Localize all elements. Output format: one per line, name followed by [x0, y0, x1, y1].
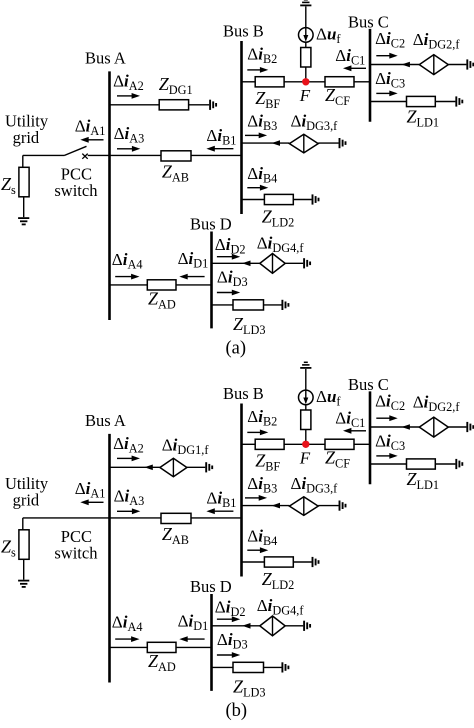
- svg-text:ZAB: ZAB: [162, 524, 189, 547]
- current label di_D1 (b): [178, 612, 209, 634]
- current label di_A2 (b): [113, 434, 144, 456]
- svg-text:ZLD2: ZLD2: [262, 569, 295, 592]
- wire Z_BF to Z_CF (a): [284, 81, 325, 83]
- label du_f (b): [316, 387, 341, 409]
- PCC switch blade open (a): [65, 146, 87, 155]
- current label di_B3 (a): [247, 112, 277, 134]
- svg-text:Zs: Zs: [1, 174, 16, 197]
- impedance Z_BF (b): [255, 439, 284, 449]
- arrow di_A2 (b): [117, 456, 140, 462]
- wire bus B to Z_LD2 (b): [242, 561, 265, 563]
- DG source DG3 (b): [289, 497, 318, 516]
- arrow di_D2 (a): [217, 254, 240, 260]
- current label di_B4 (a): [247, 164, 277, 186]
- impedance Z_AD (a): [147, 280, 176, 290]
- wire Z_s to ground (a): [23, 197, 25, 217]
- current label di_DG3,f (a): [291, 112, 339, 134]
- svg-text:ΔiB2: ΔiB2: [247, 45, 277, 66]
- bus B (a): [240, 41, 243, 214]
- svg-text:ZLD3: ZLD3: [233, 314, 266, 337]
- wire bus A to Z_AB (a): [110, 154, 162, 156]
- DG source DG2 (a): [419, 55, 448, 75]
- svg-text:ΔiB4: ΔiB4: [247, 527, 277, 549]
- arrow di_A1 (a): [80, 137, 103, 143]
- svg-text:switch: switch: [54, 181, 98, 200]
- svg-text:ZAD: ZAD: [148, 288, 176, 311]
- current label di_B4 (b): [247, 527, 277, 549]
- arrow di_A4 (b): [115, 636, 139, 642]
- svg-text:F: F: [299, 448, 311, 467]
- arrow di_D1 (b): [179, 636, 204, 642]
- wire bus C to DG2 (a): [370, 64, 419, 66]
- utility grid label (a): [5, 112, 49, 147]
- arrow di_A3 (b): [117, 508, 140, 514]
- arrow di_D1 (a): [179, 274, 204, 280]
- utility grid label (b): [5, 474, 49, 509]
- impedance Z_s (a): [19, 167, 29, 197]
- svg-text:ΔiA4: ΔiA4: [112, 613, 143, 635]
- current label di_DG1,f (b): [162, 436, 210, 458]
- svg-text:grid: grid: [13, 490, 40, 509]
- current label di_DG4,f (a): [257, 234, 305, 256]
- svg-text:ΔiA2: ΔiA2: [113, 72, 144, 94]
- ground Z_LD1 (a): [456, 96, 462, 106]
- arrowhead into bus B from DG3 (a): [272, 140, 281, 146]
- svg-text:ΔiDG2,f: ΔiDG2,f: [413, 393, 461, 415]
- svg-text:ΔiDG3,f: ΔiDG3,f: [291, 474, 339, 496]
- wire bus B to DG3 (a): [242, 142, 290, 144]
- arrowhead into bus D from DG4 (a): [242, 261, 251, 267]
- svg-text:ΔiC1: ΔiC1: [335, 46, 365, 68]
- current label di_C1 (a): [335, 46, 365, 68]
- current label di_D2 (a): [215, 235, 246, 257]
- svg-text:ZDG1: ZDG1: [159, 74, 193, 97]
- ground utility (b): [18, 581, 29, 587]
- wire Z_LD3 to ground (a): [264, 304, 282, 306]
- svg-text:ΔiC2: ΔiC2: [375, 391, 405, 413]
- bus A (b): [108, 434, 111, 683]
- arrow di_C1 (a): [343, 65, 366, 71]
- label Z_AB (b): [162, 524, 189, 547]
- svg-text:ΔiA1: ΔiA1: [75, 479, 106, 501]
- DG source DG4 (a): [260, 254, 285, 274]
- caption (a): [226, 339, 247, 359]
- impedance Z_AB (a): [161, 151, 191, 161]
- arrow di_B1 (b): [206, 508, 233, 514]
- current label di_D2 (b): [215, 597, 246, 619]
- arrow di_C3 (b): [376, 453, 397, 459]
- impedance Z_LD2 (a): [264, 194, 293, 204]
- ground Z_DG1 (a): [210, 100, 216, 110]
- current label di_B2 (a): [247, 45, 277, 66]
- wire bus A to Z_DG1 (a): [110, 104, 160, 106]
- impedance Z_LD3 (b): [233, 662, 264, 672]
- svg-text:(b): (b): [226, 701, 248, 721]
- impedance Z_BF (a): [255, 77, 284, 87]
- svg-text:(a): (a): [226, 339, 247, 359]
- svg-text:Bus B: Bus B: [223, 384, 264, 403]
- wire DG4 to ground (b): [285, 625, 303, 627]
- wire utility drop (b): [22, 518, 24, 530]
- current label di_DG2,f (a): [413, 30, 461, 52]
- ground fault top (b): [300, 362, 311, 368]
- arrow di_A1 (b): [80, 499, 103, 505]
- ground Z_LD2 (b): [313, 557, 319, 567]
- svg-text:Bus D: Bus D: [190, 577, 232, 596]
- svg-text:ΔiDG4,f: ΔiDG4,f: [257, 596, 305, 618]
- bus C label (a): [348, 12, 389, 31]
- arrowhead into bus C from DG2 (a): [401, 62, 410, 68]
- current label di_A3 (a): [114, 124, 145, 146]
- svg-text:ZAD: ZAD: [148, 651, 176, 674]
- wire fault impedance to node F (b): [305, 430, 307, 445]
- wire bus A to Z_AB (b): [110, 517, 162, 519]
- svg-text:ΔiD2: ΔiD2: [215, 235, 246, 257]
- arrowhead into bus A from DG1 (b): [144, 465, 153, 471]
- svg-text:ZBF: ZBF: [255, 451, 280, 474]
- svg-text:ZLD1: ZLD1: [407, 107, 440, 130]
- svg-text:ΔiDG3,f: ΔiDG3,f: [291, 112, 339, 134]
- ground Z_LD1 (b): [456, 459, 462, 469]
- svg-text:ZLD3: ZLD3: [233, 676, 266, 699]
- svg-text:Bus D: Bus D: [190, 215, 232, 234]
- svg-text:ΔiC1: ΔiC1: [335, 408, 365, 430]
- current label di_A1 (b): [75, 479, 106, 501]
- DG source DG2 (b): [419, 417, 448, 437]
- current label di_DG2,f (b): [413, 393, 461, 415]
- label Z_AB (a): [162, 162, 189, 185]
- wire bus D to Z_LD3 (b): [212, 666, 234, 668]
- impedance Z_LD1 (b): [407, 459, 436, 469]
- impedance Z_CF (a): [325, 77, 354, 87]
- svg-text:ΔiA3: ΔiA3: [114, 124, 145, 146]
- DG source DG1 (b): [160, 458, 187, 476]
- svg-text:ΔiA1: ΔiA1: [75, 116, 106, 138]
- label F (a): [299, 86, 311, 105]
- wire Z_AD to bus D (a): [176, 284, 212, 286]
- svg-text:ΔiDG1,f: ΔiDG1,f: [162, 436, 210, 458]
- svg-text:ΔiD1: ΔiD1: [178, 612, 209, 634]
- wire DG2 to ground (a): [448, 64, 466, 66]
- impedance Z_DG1 (a): [159, 100, 188, 110]
- wire bus C to DG2 (b): [370, 426, 419, 428]
- current label di_C1 (b): [335, 408, 365, 430]
- label Z_s (b): [1, 536, 16, 559]
- wire bus C to Z_LD1 (a): [370, 101, 407, 103]
- PCC switch label (a): [54, 165, 98, 201]
- wire ground to source (b): [305, 369, 307, 390]
- PCC switch x contact (a): [82, 154, 87, 159]
- svg-text:ΔiA3: ΔiA3: [114, 487, 145, 509]
- impedance Z_AD (b): [147, 642, 176, 652]
- current label di_A4 (b): [112, 613, 143, 635]
- svg-text:ZLD1: ZLD1: [407, 469, 440, 492]
- svg-text:F: F: [299, 86, 311, 105]
- voltage source du_f circle (a): [299, 28, 314, 43]
- svg-text:switch: switch: [54, 544, 98, 563]
- wire bus A to DG1 (b): [110, 466, 160, 468]
- svg-text:Δuf: Δuf: [316, 387, 341, 409]
- wire Z_s to ground (b): [23, 559, 25, 579]
- current label di_B3 (b): [247, 474, 277, 496]
- svg-text:ΔiD1: ΔiD1: [178, 249, 209, 271]
- svg-text:ZLD2: ZLD2: [262, 206, 295, 229]
- ground fault top (a): [300, 0, 311, 5]
- ground DG4 (a): [304, 258, 310, 268]
- wire bus B to Z_BF (a): [242, 81, 256, 83]
- ground Z_LD3 (a): [282, 300, 288, 310]
- bus A (a): [108, 71, 111, 320]
- wire Z_LD2 to ground (a): [293, 199, 311, 201]
- label Z_LD2 (a): [262, 206, 295, 229]
- voltage source du_f circle (b): [299, 390, 314, 405]
- label Z_LD3 (b): [233, 676, 266, 699]
- svg-text:ZCF: ZCF: [325, 447, 350, 470]
- wire Z_BF to Z_CF (b): [284, 443, 325, 445]
- svg-text:ΔiA4: ΔiA4: [112, 250, 143, 272]
- wire bus B to Z_BF (b): [242, 443, 256, 445]
- bus B label (b): [223, 384, 264, 403]
- bus C (a): [369, 29, 372, 122]
- arrowhead into bus D from DG4 (b): [242, 623, 251, 629]
- wire bus C to Z_LD1 (b): [370, 463, 407, 465]
- svg-text:ΔiDG2,f: ΔiDG2,f: [413, 30, 461, 52]
- arrow di_B4 (a): [247, 185, 268, 191]
- label Z_s (a): [1, 174, 16, 197]
- ground DG3 (b): [340, 501, 346, 511]
- ground utility (a): [18, 218, 29, 224]
- arrow di_A4 (a): [115, 274, 139, 280]
- wire Z_LD1 to ground (b): [435, 463, 455, 465]
- bus D (b): [210, 594, 213, 691]
- ground DG2 (a): [467, 59, 473, 69]
- current label di_C3 (b): [375, 431, 405, 453]
- impedance Z_s (b): [19, 530, 29, 560]
- impedance Z_LD1 (a): [407, 96, 436, 106]
- arrow di_A3 (a): [117, 146, 140, 152]
- caption (b): [226, 701, 248, 721]
- wire bus D to Z_LD3 (a): [212, 304, 234, 306]
- svg-text:ΔiDG4,f: ΔiDG4,f: [257, 234, 305, 256]
- bus D label (a): [190, 215, 232, 234]
- ground Z_LD2 (a): [313, 194, 319, 204]
- label du_f (a): [316, 25, 341, 47]
- label Z_CF (a): [325, 85, 350, 108]
- wire bus D to DG4 (b): [212, 625, 260, 627]
- label Z_LD1 (b): [407, 469, 440, 492]
- node F (b): [302, 441, 309, 448]
- label Z_LD2 (b): [262, 569, 295, 592]
- wire DG1 to ground (b): [187, 466, 205, 468]
- svg-text:ΔiB3: ΔiB3: [247, 112, 277, 134]
- svg-text:ΔiB4: ΔiB4: [247, 164, 277, 186]
- svg-text:ΔiB3: ΔiB3: [247, 474, 277, 496]
- arrow di_D2 (b): [217, 616, 240, 622]
- wire utility to bus A, PCC closed (b): [23, 517, 110, 519]
- label Z_DG1 (a): [159, 74, 193, 97]
- svg-text:ΔiC2: ΔiC2: [375, 29, 405, 51]
- label Z_LD3 (a): [233, 314, 266, 337]
- wire DG3 to ground (b): [318, 505, 338, 507]
- svg-text:Δuf: Δuf: [316, 25, 341, 47]
- wire ground to source (a): [305, 6, 307, 27]
- bus B label (a): [223, 22, 264, 41]
- current label di_D3 (b): [217, 630, 248, 652]
- arrow di_D3 (a): [217, 290, 240, 296]
- arrow di_C3 (a): [376, 91, 397, 97]
- arrow di_B4 (b): [247, 547, 268, 553]
- bus C label (b): [348, 375, 389, 394]
- wire Z_LD3 to ground (b): [264, 666, 282, 668]
- impedance Z_AB (b): [161, 513, 191, 523]
- wire Z_DG1 to ground (a): [189, 104, 210, 106]
- bus D label (b): [190, 577, 232, 596]
- wire bus B to Z_LD2 (a): [242, 199, 265, 201]
- arrow di_B2 (a): [247, 67, 268, 73]
- PCC switch label (b): [54, 527, 98, 563]
- label Z_LD1 (a): [407, 107, 440, 130]
- wire bus D to DG4 (a): [212, 262, 260, 264]
- current label di_D1 (a): [178, 249, 209, 271]
- current label di_A3 (b): [114, 487, 145, 509]
- wire DG2 to ground (b): [448, 426, 466, 428]
- impedance Z_LD2 (b): [264, 557, 293, 567]
- wire PCC switch to bus A (a): [88, 154, 110, 156]
- current label di_A1 (a): [75, 116, 106, 138]
- wire Z_AD to bus D (b): [176, 646, 212, 648]
- current label di_A2 (a): [113, 72, 144, 94]
- ground DG2 (b): [467, 422, 473, 432]
- current label di_B2 (b): [247, 407, 277, 429]
- wire source to fault impedance (b): [305, 405, 307, 410]
- svg-text:ΔiC3: ΔiC3: [375, 69, 405, 91]
- svg-text:ZAB: ZAB: [162, 162, 189, 185]
- label Z_BF (a): [255, 88, 280, 111]
- label F (b): [299, 448, 311, 467]
- arrow di_C1 (b): [343, 428, 366, 434]
- bus D (a): [210, 232, 213, 329]
- wire DG4 to ground (a): [285, 262, 303, 264]
- label Z_AD (b): [148, 651, 176, 674]
- bus C (b): [369, 391, 372, 484]
- svg-text:Bus A: Bus A: [85, 411, 126, 430]
- label Z_CF (b): [325, 447, 350, 470]
- wire bus A to Z_AD (a): [110, 284, 148, 286]
- current label di_B1 (b): [206, 488, 236, 510]
- svg-text:ΔiD3: ΔiD3: [217, 268, 248, 290]
- arrow di_C2 (a): [376, 53, 397, 59]
- bus A label (b): [85, 411, 126, 430]
- wire Z_CF to bus C (a): [354, 81, 370, 83]
- arrow di_D3 (b): [217, 652, 240, 658]
- svg-text:ΔiC3: ΔiC3: [375, 431, 405, 453]
- current label di_A4 (a): [112, 250, 143, 272]
- arrow di_B1 (a): [206, 146, 233, 152]
- svg-text:ΔiA2: ΔiA2: [113, 434, 144, 456]
- label Z_BF (b): [255, 451, 280, 474]
- wire Z_AB to bus B (b): [191, 517, 242, 519]
- arrowhead into bus C from DG2 (b): [401, 424, 410, 430]
- wire Z_LD2 to ground (b): [293, 561, 311, 563]
- wire utility to PCC switch (a): [23, 154, 65, 156]
- wire fault impedance to node F (a): [305, 67, 307, 82]
- bus B (b): [240, 404, 243, 577]
- ground DG4 (b): [304, 621, 310, 631]
- current label di_D3 (a): [217, 268, 248, 290]
- node F (a): [302, 78, 309, 85]
- arrow di_A2 (a): [117, 93, 140, 99]
- DG source DG3 (a): [289, 134, 318, 153]
- arrow di_B2 (b): [247, 430, 268, 436]
- arrowhead into bus B from DG3 (b): [272, 503, 281, 509]
- DG source DG4 (b): [260, 616, 285, 636]
- wire utility drop (a): [22, 155, 24, 167]
- svg-text:ZBF: ZBF: [255, 88, 280, 111]
- svg-text:grid: grid: [13, 128, 40, 147]
- current label di_C2 (b): [375, 391, 405, 413]
- wire source to fault impedance (a): [305, 42, 307, 47]
- wire Z_LD1 to ground (a): [435, 101, 455, 103]
- current label di_C2 (a): [375, 29, 405, 51]
- fault impedance (b): [301, 410, 311, 430]
- ground DG3 (a): [340, 138, 346, 148]
- svg-text:ΔiD2: ΔiD2: [215, 597, 246, 619]
- wire Z_AB to bus B (a): [191, 154, 242, 156]
- wire DG3 to ground (a): [318, 142, 338, 144]
- bus A label (a): [85, 49, 126, 68]
- svg-text:ZCF: ZCF: [325, 85, 350, 108]
- current label di_DG3,f (b): [291, 474, 339, 496]
- svg-text:ΔiB2: ΔiB2: [247, 407, 277, 429]
- impedance Z_CF (b): [325, 439, 354, 449]
- svg-text:Zs: Zs: [1, 536, 16, 559]
- svg-text:Bus A: Bus A: [85, 49, 126, 68]
- current label di_DG4,f (b): [257, 596, 305, 618]
- svg-text:ΔiB1: ΔiB1: [206, 126, 236, 148]
- arrow di_C2 (b): [376, 415, 397, 421]
- arrow di_B3 (b): [245, 495, 267, 501]
- svg-text:Bus B: Bus B: [223, 22, 264, 41]
- wire bus A to Z_AD (b): [110, 646, 148, 648]
- ground Z_LD3 (b): [282, 662, 288, 672]
- current label di_B1 (a): [206, 126, 236, 148]
- label Z_AD (a): [148, 288, 176, 311]
- svg-text:ΔiD3: ΔiD3: [217, 630, 248, 652]
- arrow di_B3 (a): [245, 133, 267, 139]
- wire Z_CF to bus C (b): [354, 443, 370, 445]
- current label di_C3 (a): [375, 69, 405, 91]
- svg-text:ΔiB1: ΔiB1: [206, 488, 236, 510]
- wire bus B to DG3 (b): [242, 505, 290, 507]
- impedance Z_LD3 (a): [233, 300, 264, 310]
- ground DG1 (b): [206, 462, 212, 472]
- fault impedance (a): [301, 48, 311, 68]
